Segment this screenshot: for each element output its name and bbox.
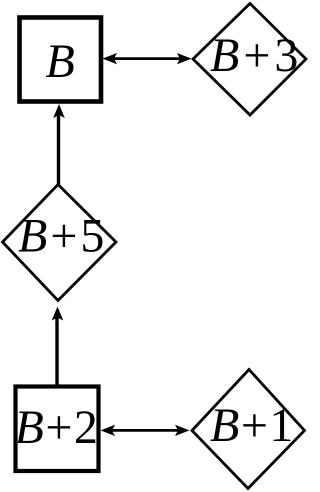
box B+2 xyxy=(16,387,99,472)
svg-text:B+5: B+5 xyxy=(18,210,107,263)
wire: double arrow B+2 to B+1 xyxy=(110,429,180,432)
diamond B+5 xyxy=(3,185,117,301)
wire: arrow B+2 to B+5 xyxy=(55,317,58,385)
svg-text:B: B xyxy=(46,35,75,88)
svg-text:B+1: B+1 xyxy=(210,399,295,452)
box B xyxy=(20,18,102,102)
wire: arrow B+5 to B xyxy=(57,114,60,185)
diamond B+3 xyxy=(193,4,306,116)
svg-text:B+2: B+2 xyxy=(15,401,100,454)
svg-text:B+3: B+3 xyxy=(210,29,302,82)
diamond B+1 xyxy=(192,370,305,489)
wire: double arrow B to B+3 xyxy=(112,57,182,60)
